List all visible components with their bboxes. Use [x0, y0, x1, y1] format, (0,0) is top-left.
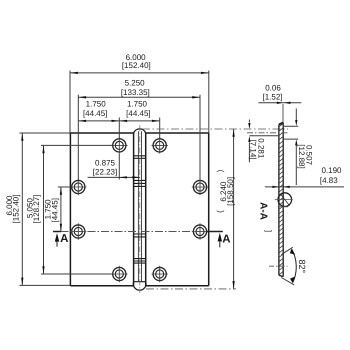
hinge right leaf outline — [146, 133, 209, 286]
section arrow A left — [55, 233, 69, 247]
svg-text:[12.88]: [12.88] — [297, 144, 306, 168]
knuckle centerline in section — [247, 132, 288, 134]
knuckle circle in section — [275, 193, 293, 207]
section arrow A right — [218, 233, 231, 248]
dimension 5.050 [128.27] hole span height — [26, 145, 45, 274]
svg-text:[152.40]: [152.40] — [122, 61, 151, 70]
svg-text:0.190: 0.190 — [321, 166, 342, 175]
extension lines top — [70, 71, 209, 181]
svg-text:0.875: 0.875 — [95, 159, 116, 168]
pin vertical centerline — [139, 125, 141, 293]
barrel bottom dome — [133, 282, 146, 290]
section centerline through bevel — [269, 265, 288, 267]
svg-text:A: A — [222, 233, 230, 245]
dimension 1.750 [44.45] center hole pitch — [120, 100, 160, 122]
svg-text:(: ( — [215, 210, 224, 213]
screw hole row1 left — [111, 137, 127, 153]
bearing band 4 — [134, 259, 146, 264]
dimension 0.06 [1.52] tip offset — [258, 83, 301, 122]
svg-text:[133.35]: [133.35] — [121, 88, 150, 97]
screw hole row4 left — [111, 266, 127, 282]
svg-text:[128.27]: [128.27] — [32, 195, 41, 224]
svg-text:[44.45]: [44.45] — [50, 198, 59, 222]
svg-text:82°: 82° — [297, 259, 307, 273]
svg-text:5.250: 5.250 — [125, 79, 146, 88]
dimension 5.250 [133.35] hole span width — [78, 79, 200, 99]
svg-text:[152.40]: [152.40] — [11, 195, 20, 224]
dimension 82 degree bevel angle — [281, 247, 307, 285]
dimension 1.750 [44.45] row pitch left — [43, 187, 62, 232]
pin centerline bottom extension — [146, 288, 236, 290]
dimension 6.000 [152.40] top width — [70, 53, 209, 74]
screw hole row1 right — [152, 137, 168, 153]
screw hole row4 right — [152, 266, 168, 282]
pin centerline top to section view — [142, 128, 288, 130]
svg-text:]: ] — [264, 230, 273, 232]
section plate hatching — [279, 123, 283, 279]
svg-text:[158.50]: [158.50] — [226, 177, 235, 206]
screw hole row3 right — [192, 223, 208, 239]
screw hole row2 left — [70, 179, 86, 195]
svg-text:[4.83: [4.83 — [320, 176, 338, 185]
svg-text:[44.45]: [44.45] — [126, 109, 150, 118]
svg-text:0.06: 0.06 — [265, 83, 281, 92]
barrel top dome — [134, 129, 146, 133]
knuckle joint band 1 — [134, 156, 146, 159]
svg-text:[7.14]: [7.14] — [249, 139, 258, 159]
svg-text:[1.52]: [1.52] — [262, 92, 282, 101]
svg-text:): ) — [215, 169, 224, 172]
section line A-A — [53, 231, 223, 233]
dimension 0.281 [7.14] pin center to leaf face — [248, 120, 279, 163]
dimension 0.875 [22.23] hole to pin center — [88, 159, 140, 179]
svg-text:[22.23]: [22.23] — [93, 167, 117, 176]
extension lines left — [20, 133, 113, 285]
dimension 6.000 [152.40] left height — [5, 133, 24, 285]
svg-text:A-A: A-A — [258, 202, 269, 220]
hinge pin lines — [138, 131, 141, 282]
screw hole row3 left — [70, 223, 86, 239]
hinge left leaf outline — [70, 133, 133, 286]
dimension 0.190 [4.83 leaf thickness — [265, 166, 344, 188]
svg-text:A: A — [60, 233, 68, 245]
knuckle joint band 3 — [134, 234, 146, 237]
bearing band 2 — [134, 180, 146, 186]
screw hole row2 right — [192, 179, 208, 195]
dimension 1.750 [44.45] left hole pitch — [78, 100, 159, 122]
svg-text:1.750: 1.750 — [127, 100, 148, 109]
barrel knuckle edges — [134, 133, 146, 286]
svg-text:[44.45]: [44.45] — [83, 109, 107, 118]
svg-text:1.750: 1.750 — [86, 100, 107, 109]
dimension (6.240) [158.50] barrel height — [215, 129, 235, 289]
dimension 0.507 [12.88] knuckle diameter — [283, 109, 313, 186]
